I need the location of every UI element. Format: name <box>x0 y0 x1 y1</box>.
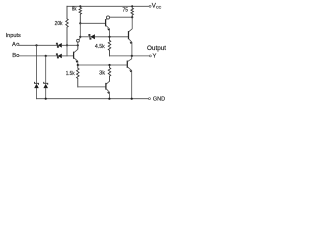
diode D1A schottky input A <box>56 43 58 47</box>
node clamp B ground junction <box>45 98 47 100</box>
node N1 junction A <box>66 44 68 46</box>
svg-text:20k: 20k <box>55 21 63 27</box>
wire Q2 collector to 75 node <box>109 16 132 18</box>
transistor Q4 <box>126 61 128 67</box>
wire diode to Q3 base <box>95 36 129 38</box>
wire output rail <box>110 55 150 57</box>
wire Q2 collector curl <box>106 16 109 19</box>
wire clamp B to ground <box>45 88 47 99</box>
node output terminal <box>149 55 151 57</box>
resistor 8k <box>79 6 82 23</box>
wire clamp B drop <box>45 56 47 83</box>
wire Vcc top rail <box>67 5 149 7</box>
resistor 4.5k <box>108 37 111 56</box>
transistor Q2 <box>105 20 107 26</box>
wire Q1 collector node to diode <box>80 36 90 38</box>
wire clamp A to ground <box>36 88 38 99</box>
node junction 75 bottom <box>131 16 133 18</box>
node junction Q2 emitter <box>108 36 110 38</box>
node junction 3k top <box>108 64 110 66</box>
svg-text:Inputs: Inputs <box>6 33 21 39</box>
svg-text:Y: Y <box>153 54 157 60</box>
resistor 20k <box>66 6 69 45</box>
node N2 junction collector <box>79 36 81 38</box>
wire N2 to Q2 base <box>80 22 105 24</box>
node junction 75 rail <box>131 5 133 7</box>
wire ground rail <box>37 98 149 100</box>
svg-text:4.5k: 4.5k <box>95 44 105 50</box>
diode D2B clamp B <box>44 82 48 84</box>
svg-text:8k: 8k <box>72 7 77 13</box>
wire clamp A drop <box>36 45 38 83</box>
resistor 75 <box>131 6 134 17</box>
wire input B <box>19 55 58 57</box>
wire Q1 emitter to Q4 base <box>78 64 128 66</box>
wire 3k to Q5 collector <box>106 81 109 84</box>
svg-text:75: 75 <box>123 8 129 14</box>
svg-text:Output: Output <box>147 46 166 52</box>
node Q4 emitter ground junction <box>131 98 133 100</box>
node junction N1 collector tie <box>77 44 79 46</box>
node GND terminal <box>149 98 151 100</box>
wire Q1 collector vertical <box>77 45 79 48</box>
svg-text:B: B <box>12 53 16 59</box>
transistor Q1 <box>73 52 75 58</box>
svg-text:VCC: VCC <box>152 3 162 10</box>
wire diode A to bus <box>62 44 78 46</box>
transistor Q5 <box>105 84 107 90</box>
wire input A <box>19 44 58 46</box>
diode D2A clamp A <box>35 82 39 84</box>
node junction 8k rail <box>79 5 81 7</box>
node junction A clamp <box>35 44 37 46</box>
node junction Q1 emitter <box>77 64 79 66</box>
node N2 junction 8k <box>79 22 81 24</box>
node junction B clamp <box>45 55 47 57</box>
wire Q1 collector curl <box>77 39 80 42</box>
node output junction <box>131 55 133 57</box>
svg-text:GND: GND <box>153 97 165 103</box>
node Q5 emitter ground junction <box>108 98 110 100</box>
transistor Q3 <box>128 32 130 39</box>
wire 8k to Q1 collector <box>79 23 81 37</box>
wire 75 node down to Q3 collector <box>129 17 133 32</box>
svg-text:1.5k: 1.5k <box>66 71 75 77</box>
wire diode B to bus <box>62 55 67 57</box>
resistor 3k <box>108 65 111 81</box>
wire N1 bus to Q1 base <box>67 45 74 56</box>
node input A terminal <box>17 43 19 45</box>
diode D1B schottky input B <box>56 54 58 58</box>
diode D3 schottky collector <box>89 35 91 40</box>
resistor 1.5k <box>77 65 80 87</box>
node input B terminal <box>17 54 19 56</box>
node Vcc terminal <box>149 5 151 7</box>
svg-text:A: A <box>12 42 16 48</box>
svg-text:3k: 3k <box>99 71 105 77</box>
wire 1.5k to Q5 base <box>78 86 106 88</box>
